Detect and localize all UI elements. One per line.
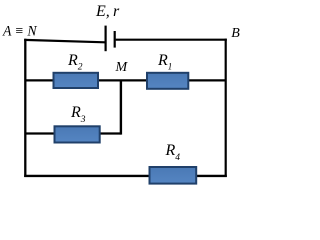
svg-text:A ≡ N: A ≡ N (2, 23, 37, 39)
svg-text:B: B (231, 26, 240, 41)
svg-text:E, r: E, r (95, 3, 120, 20)
svg-text:M: M (115, 60, 129, 75)
